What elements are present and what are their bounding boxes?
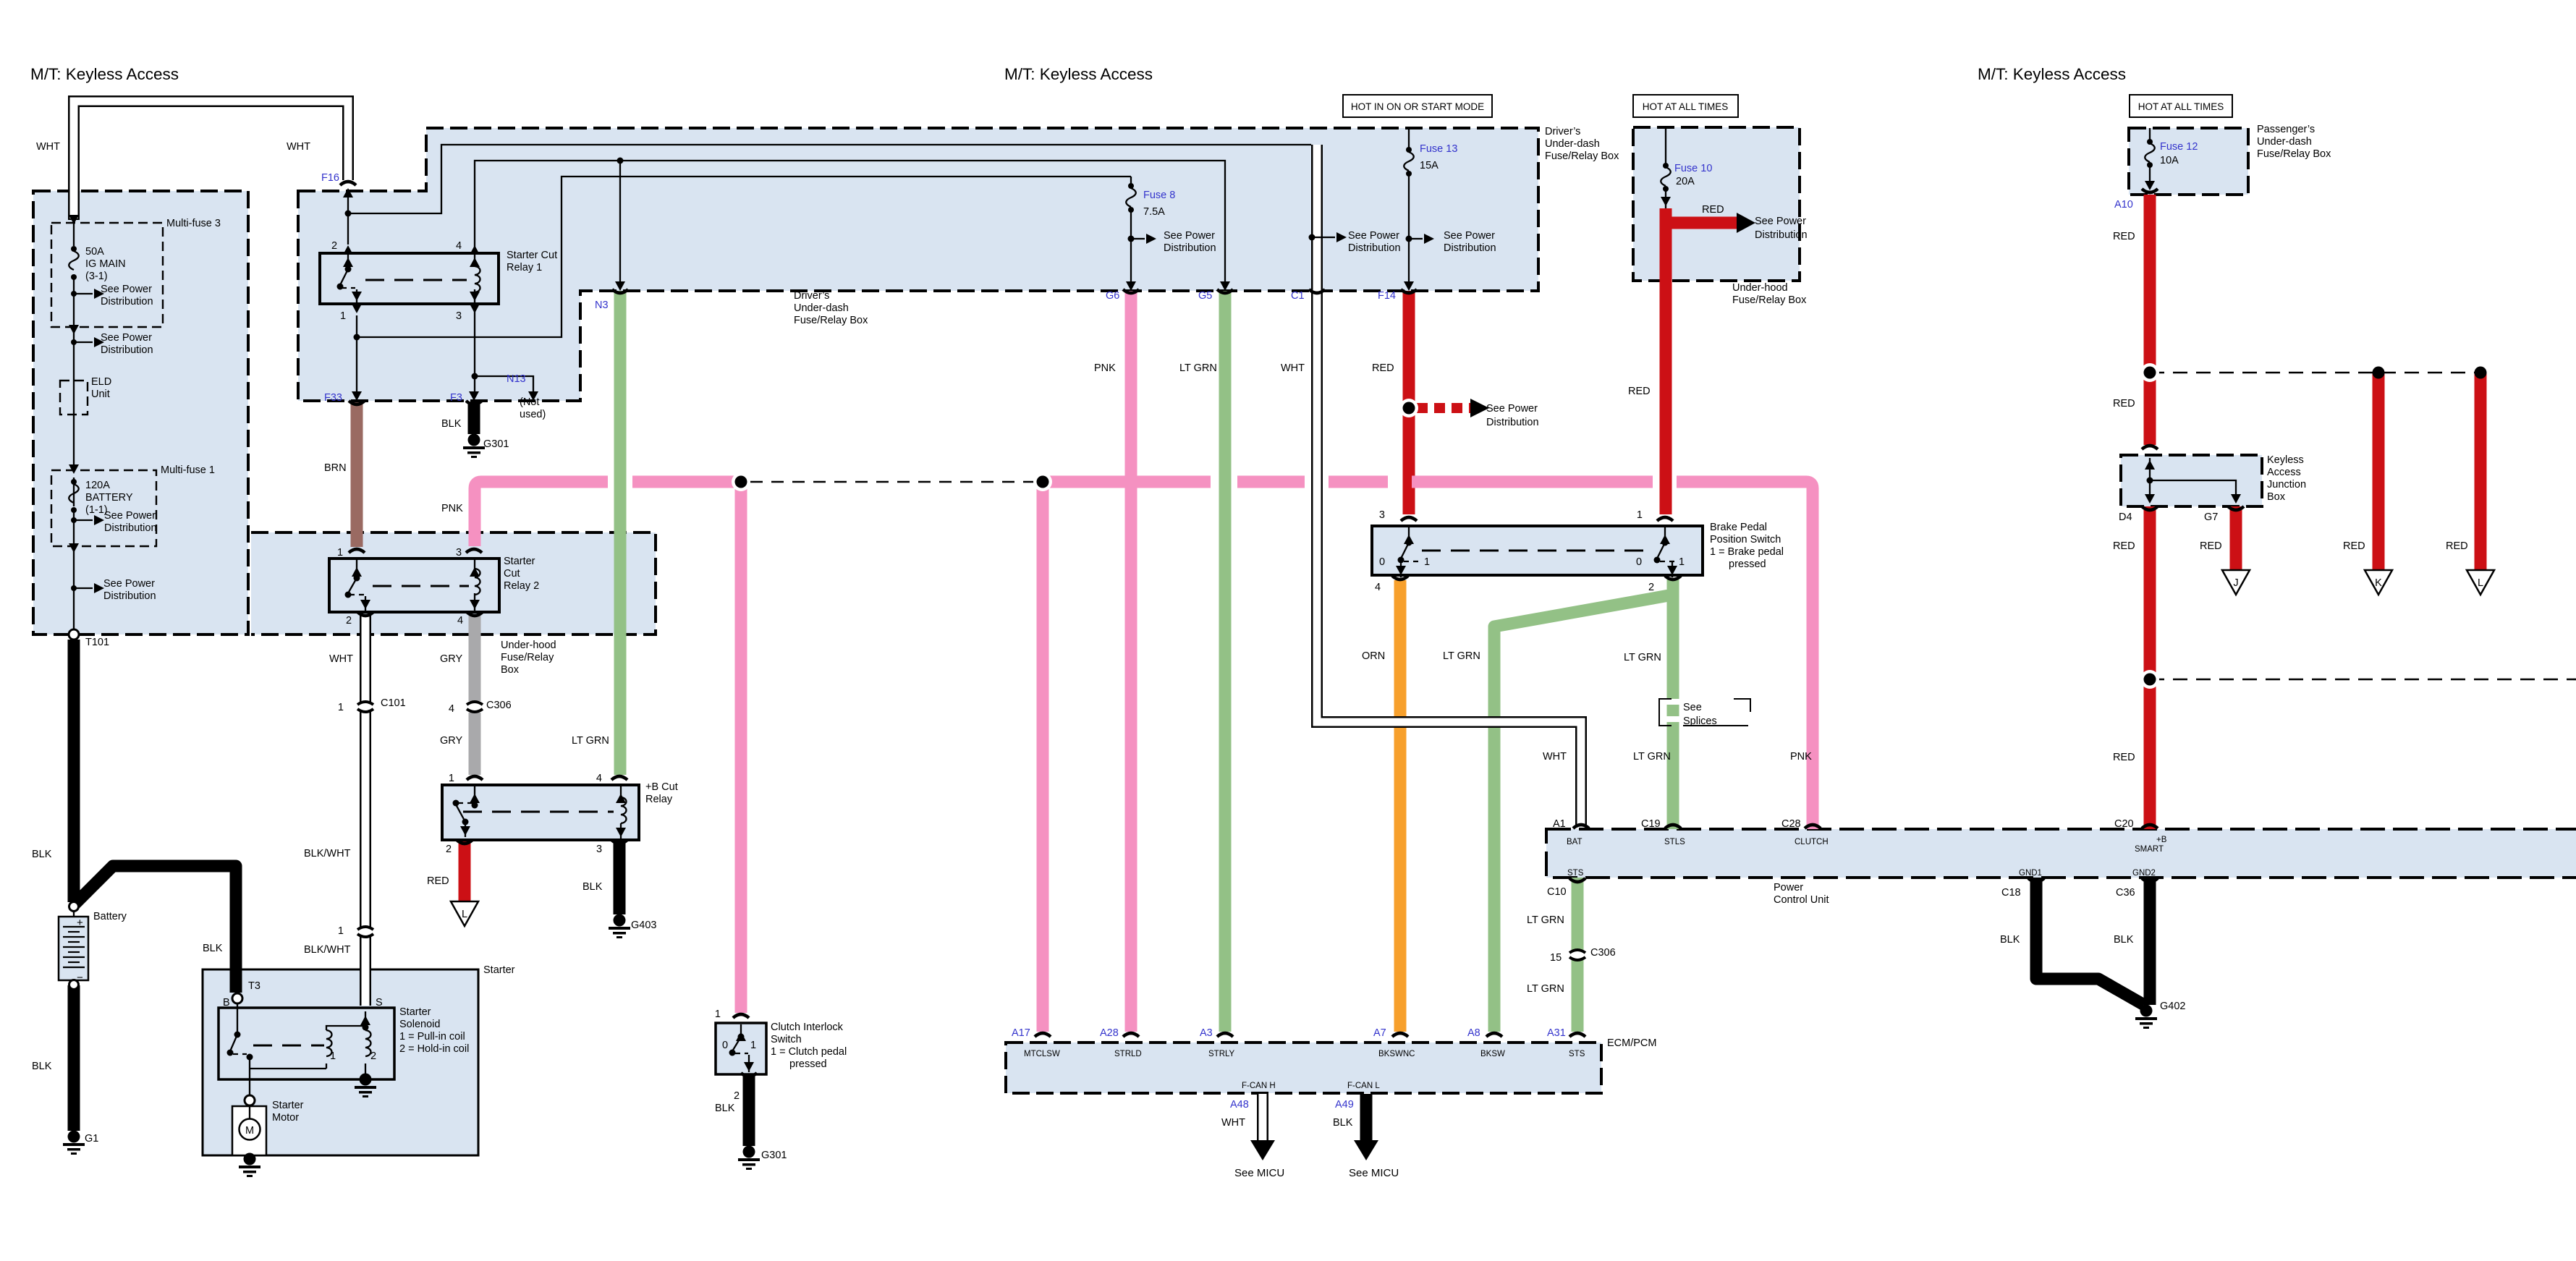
svg-text:PNK: PNK (441, 503, 463, 514)
svg-text:BLK: BLK (441, 418, 462, 430)
svg-text:M/T: Keyless Access: M/T: Keyless Access (1978, 65, 2126, 83)
svg-text:1: 1 (337, 547, 343, 559)
svg-text:Motor: Motor (272, 1112, 299, 1124)
svg-text:IG MAIN: IG MAIN (85, 258, 126, 270)
svg-text:STS: STS (1569, 1050, 1585, 1058)
svg-text:RED: RED (2200, 540, 2222, 552)
svg-text:2: 2 (331, 240, 337, 252)
svg-text:STS: STS (1567, 869, 1584, 878)
svg-text:G5: G5 (1198, 290, 1212, 302)
svg-text:Passenger’s: Passenger’s (2257, 124, 2315, 135)
svg-text:F33: F33 (324, 392, 342, 404)
svg-text:Starter: Starter (483, 964, 515, 976)
svg-text:(Not: (Not (520, 396, 539, 408)
svg-text:RED: RED (2113, 540, 2135, 552)
svg-text:4: 4 (457, 615, 463, 627)
svg-text:ECM/PCM: ECM/PCM (1607, 1037, 1656, 1049)
svg-text:LT GRN: LT GRN (1633, 751, 1671, 763)
svg-text:3: 3 (456, 547, 462, 559)
svg-text:RED: RED (2446, 540, 2468, 552)
svg-text:50A: 50A (85, 246, 104, 258)
svg-text:N3: N3 (595, 300, 609, 311)
svg-text:3: 3 (1379, 509, 1385, 521)
svg-text:See Power: See Power (1755, 216, 1806, 227)
svg-text:BAT: BAT (1567, 838, 1583, 846)
svg-text:L: L (2478, 577, 2483, 589)
svg-text:GRY: GRY (440, 653, 462, 665)
svg-text:WHT: WHT (329, 653, 353, 665)
svg-text:7.5A: 7.5A (1143, 206, 1165, 218)
svg-text:Fuse 13: Fuse 13 (1420, 143, 1457, 155)
svg-text:1 = Pull-in coil: 1 = Pull-in coil (399, 1031, 465, 1043)
svg-text:Access: Access (2267, 467, 2301, 478)
svg-text:Junction: Junction (2267, 479, 2306, 491)
svg-text:See Power: See Power (101, 284, 152, 295)
svg-text:(3-1): (3-1) (85, 271, 108, 282)
svg-text:See Power: See Power (101, 332, 152, 344)
svg-text:ELD: ELD (91, 376, 111, 388)
svg-text:A8: A8 (1467, 1027, 1480, 1039)
svg-text:WHT: WHT (287, 141, 310, 153)
svg-text:Distribution: Distribution (101, 296, 153, 307)
svg-text:WHT: WHT (1221, 1117, 1245, 1129)
svg-text:A3: A3 (1200, 1027, 1213, 1039)
svg-text:Power: Power (1774, 882, 1803, 893)
svg-text:C306: C306 (486, 700, 512, 711)
svg-text:C20: C20 (2114, 818, 2134, 830)
svg-text:WHT: WHT (1543, 751, 1567, 763)
svg-text:M: M (245, 1125, 254, 1137)
svg-text:C1: C1 (1291, 290, 1305, 302)
svg-text:Switch: Switch (771, 1034, 802, 1045)
svg-text:See: See (1683, 702, 1702, 713)
svg-text:Fuse 8: Fuse 8 (1143, 190, 1175, 201)
svg-text:BLK/WHT: BLK/WHT (304, 944, 351, 956)
svg-text:A10: A10 (2114, 199, 2133, 211)
svg-text:WHT: WHT (36, 141, 60, 153)
svg-text:S: S (376, 997, 383, 1009)
svg-text:Battery: Battery (93, 911, 127, 922)
svg-text:Distribution: Distribution (1164, 242, 1216, 254)
svg-text:Under-hood: Under-hood (501, 640, 556, 651)
svg-text:Box: Box (501, 664, 520, 676)
svg-text:Unit: Unit (91, 389, 110, 400)
svg-text:BKSWNC: BKSWNC (1378, 1050, 1415, 1058)
svg-text:F-CAN L: F-CAN L (1347, 1082, 1380, 1090)
svg-text:RED: RED (2113, 231, 2135, 242)
svg-text:15A: 15A (1420, 160, 1439, 171)
svg-text:See Power: See Power (103, 578, 155, 590)
svg-text:+: + (77, 917, 83, 929)
svg-text:3: 3 (596, 844, 602, 855)
svg-text:A1: A1 (1553, 818, 1566, 830)
svg-text:0: 0 (1379, 556, 1385, 568)
svg-text:3: 3 (456, 310, 462, 322)
svg-text:CLUTCH: CLUTCH (1795, 838, 1829, 846)
svg-text:Brake Pedal: Brake Pedal (1710, 522, 1767, 533)
svg-text:G301: G301 (483, 438, 509, 450)
svg-text:Clutch Interlock: Clutch Interlock (771, 1022, 844, 1033)
svg-text:Fuse/Relay Box: Fuse/Relay Box (1545, 150, 1619, 162)
svg-text:1: 1 (1679, 556, 1685, 568)
svg-text:WHT: WHT (1281, 362, 1305, 374)
svg-text:Fuse/Relay Box: Fuse/Relay Box (794, 315, 868, 326)
svg-text:Position Switch: Position Switch (1710, 534, 1781, 545)
svg-text:2: 2 (1648, 582, 1654, 593)
svg-text:Distribution: Distribution (104, 522, 157, 534)
svg-text:Starter: Starter (504, 556, 535, 567)
svg-text:2 = Hold-in coil: 2 = Hold-in coil (399, 1043, 469, 1055)
svg-text:BLK: BLK (1333, 1117, 1353, 1129)
svg-text:See Power: See Power (1164, 230, 1215, 242)
svg-text:Fuse 12: Fuse 12 (2160, 141, 2198, 153)
svg-text:2: 2 (446, 844, 452, 855)
svg-text:15: 15 (1550, 952, 1562, 964)
svg-text:Distribution: Distribution (1444, 242, 1496, 254)
svg-text:STRLD: STRLD (1114, 1050, 1142, 1058)
svg-text:A49: A49 (1335, 1099, 1354, 1111)
svg-text:Starter: Starter (399, 1006, 431, 1018)
svg-text:20A: 20A (1676, 176, 1695, 187)
svg-text:pressed: pressed (1729, 559, 1766, 570)
svg-text:LT GRN: LT GRN (1527, 983, 1564, 995)
svg-text:RED: RED (427, 875, 449, 887)
svg-text:4: 4 (596, 773, 602, 784)
svg-text:A48: A48 (1230, 1099, 1249, 1111)
svg-text:1: 1 (1637, 509, 1643, 521)
svg-text:Under-dash: Under-dash (794, 302, 849, 314)
svg-text:RED: RED (1628, 386, 1651, 397)
svg-text:F-CAN H: F-CAN H (1242, 1082, 1276, 1090)
svg-text:G403: G403 (631, 920, 656, 931)
svg-text:STRLY: STRLY (1208, 1050, 1235, 1058)
svg-text:4: 4 (449, 703, 454, 715)
svg-text:LT GRN: LT GRN (1179, 362, 1217, 374)
svg-text:+B: +B (2156, 836, 2167, 844)
svg-text:−: − (77, 972, 83, 984)
svg-text:D4: D4 (2119, 511, 2132, 523)
svg-text:J: J (2233, 577, 2238, 589)
svg-text:RED: RED (1372, 362, 1394, 374)
svg-text:HOT AT ALL TIMES: HOT AT ALL TIMES (2138, 101, 2224, 112)
svg-text:See Power: See Power (104, 510, 156, 522)
svg-text:ORN: ORN (1362, 650, 1385, 662)
svg-text:1 = Brake pedal: 1 = Brake pedal (1710, 546, 1784, 558)
svg-text:Under-dash: Under-dash (1545, 138, 1600, 150)
svg-text:Multi-fuse 1: Multi-fuse 1 (161, 464, 215, 476)
svg-text:+B Cut: +B Cut (645, 781, 678, 793)
svg-text:Fuse 10: Fuse 10 (1674, 163, 1712, 174)
svg-text:0: 0 (722, 1040, 728, 1051)
svg-text:Keyless: Keyless (2267, 454, 2304, 466)
svg-text:1 = Clutch pedal: 1 = Clutch pedal (771, 1046, 847, 1058)
svg-text:B: B (223, 997, 230, 1009)
svg-text:M/T: Keyless Access: M/T: Keyless Access (30, 65, 179, 83)
svg-text:K: K (2375, 577, 2382, 589)
svg-text:See Power: See Power (1444, 230, 1495, 242)
svg-text:A7: A7 (1373, 1027, 1386, 1039)
svg-text:LT GRN: LT GRN (1443, 650, 1480, 662)
svg-text:Solenoid: Solenoid (399, 1019, 440, 1030)
svg-text:MTCLSW: MTCLSW (1024, 1050, 1060, 1058)
svg-text:See Power: See Power (1486, 403, 1538, 415)
svg-text:LT GRN: LT GRN (1527, 914, 1564, 926)
svg-text:BLK: BLK (32, 1061, 52, 1072)
svg-text:BLK/WHT: BLK/WHT (304, 848, 351, 859)
svg-text:Distribution: Distribution (1348, 242, 1401, 254)
svg-text:Box: Box (2267, 491, 2286, 503)
svg-text:LT GRN: LT GRN (572, 735, 609, 747)
svg-text:pressed: pressed (789, 1058, 827, 1070)
svg-text:Distribution: Distribution (101, 344, 153, 356)
svg-text:A17: A17 (1012, 1027, 1030, 1039)
svg-text:Multi-fuse 3: Multi-fuse 3 (166, 218, 221, 229)
svg-text:BKSW: BKSW (1480, 1050, 1505, 1058)
svg-text:Control Unit: Control Unit (1774, 894, 1829, 906)
svg-text:Driver’s: Driver’s (794, 290, 829, 302)
svg-text:C36: C36 (2116, 887, 2135, 899)
svg-text:Under-hood: Under-hood (1732, 282, 1788, 294)
svg-text:BLK: BLK (2114, 934, 2134, 946)
svg-text:PNK: PNK (1094, 362, 1116, 374)
svg-text:Driver’s: Driver’s (1545, 126, 1580, 137)
svg-text:1: 1 (330, 1050, 336, 1062)
svg-text:1: 1 (340, 310, 346, 322)
svg-text:0: 0 (1636, 556, 1642, 568)
svg-text:1: 1 (750, 1040, 756, 1051)
svg-text:T101: T101 (85, 637, 109, 648)
svg-text:HOT AT ALL TIMES: HOT AT ALL TIMES (1643, 101, 1729, 112)
svg-text:Under-dash: Under-dash (2257, 136, 2312, 148)
svg-text:Fuse/Relay Box: Fuse/Relay Box (1732, 294, 1807, 306)
svg-text:Relay: Relay (645, 794, 673, 805)
svg-text:RED: RED (2343, 540, 2365, 552)
svg-text:Distribution: Distribution (1486, 417, 1539, 428)
svg-text:C10: C10 (1547, 886, 1567, 898)
svg-text:used): used) (520, 409, 546, 420)
svg-text:Distribution: Distribution (1755, 229, 1808, 241)
svg-text:1: 1 (449, 773, 454, 784)
svg-text:C18: C18 (2001, 887, 2021, 899)
svg-text:G6: G6 (1106, 290, 1119, 302)
svg-text:2: 2 (370, 1050, 376, 1062)
svg-text:GND1: GND1 (2019, 869, 2042, 878)
svg-text:Fuse/Relay: Fuse/Relay (501, 652, 554, 663)
svg-text:C19: C19 (1641, 818, 1661, 830)
svg-text:G402: G402 (2160, 1001, 2185, 1012)
svg-text:Splices: Splices (1683, 716, 1717, 727)
svg-text:BLK: BLK (582, 881, 603, 893)
svg-text:A28: A28 (1100, 1027, 1119, 1039)
svg-text:T3: T3 (248, 980, 260, 992)
svg-text:1: 1 (338, 925, 344, 937)
svg-text:1: 1 (1424, 556, 1430, 568)
svg-text:BLK: BLK (2000, 934, 2020, 946)
svg-text:F16: F16 (321, 172, 339, 184)
svg-text:BATTERY: BATTERY (85, 492, 133, 504)
svg-text:STLS: STLS (1664, 838, 1685, 846)
svg-text:Cut: Cut (504, 568, 520, 579)
svg-text:See MICU: See MICU (1349, 1167, 1399, 1179)
svg-text:RED: RED (1702, 204, 1724, 216)
svg-text:G301: G301 (761, 1150, 787, 1161)
svg-text:120A: 120A (85, 480, 110, 491)
svg-text:BLK: BLK (715, 1103, 735, 1114)
svg-text:BLK: BLK (203, 943, 223, 954)
svg-text:2: 2 (346, 615, 352, 627)
svg-text:Starter Cut: Starter Cut (507, 250, 557, 261)
svg-text:BLK: BLK (32, 849, 52, 860)
svg-text:RED: RED (2113, 398, 2135, 409)
svg-text:Fuse/Relay Box: Fuse/Relay Box (2257, 148, 2331, 160)
svg-text:Relay 2: Relay 2 (504, 580, 539, 592)
svg-text:2: 2 (734, 1090, 740, 1102)
svg-text:F14: F14 (1378, 290, 1396, 302)
svg-text:GND2: GND2 (2132, 869, 2156, 878)
svg-text:C28: C28 (1781, 818, 1801, 830)
svg-text:See MICU: See MICU (1234, 1167, 1284, 1179)
svg-text:4: 4 (456, 240, 462, 252)
svg-text:M/T: Keyless Access: M/T: Keyless Access (1004, 65, 1153, 83)
svg-text:A31: A31 (1547, 1027, 1566, 1039)
svg-text:RED: RED (2113, 752, 2135, 763)
svg-text:F3: F3 (450, 392, 462, 404)
svg-text:GRY: GRY (440, 735, 462, 747)
svg-text:C306: C306 (1590, 947, 1616, 959)
svg-text:N13: N13 (507, 373, 526, 385)
svg-text:10A: 10A (2160, 155, 2179, 166)
svg-text:Distribution: Distribution (103, 590, 156, 602)
svg-text:See Power: See Power (1348, 230, 1399, 242)
svg-text:Relay 1: Relay 1 (507, 262, 542, 273)
svg-text:LT GRN: LT GRN (1624, 652, 1661, 663)
svg-text:G1: G1 (85, 1133, 98, 1145)
svg-text:L: L (462, 909, 467, 920)
svg-text:1: 1 (715, 1009, 721, 1020)
svg-text:C101: C101 (381, 697, 406, 709)
svg-text:G7: G7 (2204, 511, 2218, 523)
svg-text:BRN: BRN (324, 462, 347, 474)
svg-text:4: 4 (1375, 582, 1381, 593)
svg-text:PNK: PNK (1790, 751, 1812, 763)
svg-text:HOT IN ON OR START MODE: HOT IN ON OR START MODE (1351, 101, 1484, 112)
svg-text:Starter: Starter (272, 1100, 304, 1111)
svg-text:1: 1 (338, 702, 344, 713)
svg-text:SMART: SMART (2135, 845, 2164, 854)
